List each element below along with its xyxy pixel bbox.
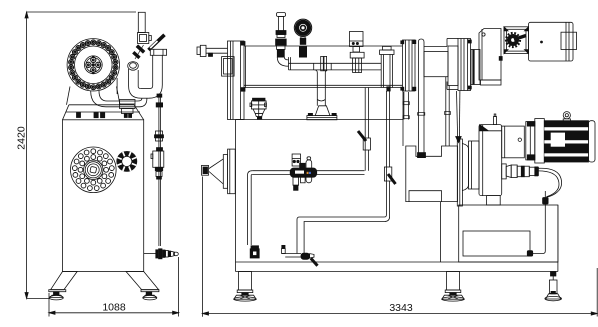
pipe A cap [277, 13, 286, 17]
lower Z pipe [297, 213, 390, 254]
tie rods to bell [456, 91, 462, 143]
pipe B vertical [365, 88, 368, 171]
dimension 1088 extension lines [49, 257, 179, 317]
rod fitting A [156, 94, 162, 107]
top motor cylinder [529, 22, 577, 61]
lower pipe to valve block [106, 99, 147, 107]
pump base box [459, 205, 558, 262]
pipe collar [128, 62, 139, 71]
valve V1 angled lower fittings [133, 45, 145, 59]
bearing flange columns [458, 39, 471, 91]
bell disc [469, 141, 480, 189]
tray inlet valve block [120, 100, 136, 114]
frame leg 2 [445, 272, 461, 293]
bell taper [462, 144, 468, 191]
long mounting bar [418, 39, 425, 153]
camlock coupling [250, 246, 259, 258]
regulator assembly [290, 154, 317, 190]
gear housing with gear [504, 27, 529, 54]
frame outline [236, 91, 558, 272]
pedestal support [307, 70, 337, 120]
frame top line [236, 119, 404, 121]
wheel outlet elbow [91, 91, 107, 107]
dimension 3343 extension lines [203, 177, 598, 317]
tray bolts [77, 113, 132, 118]
hopper [202, 149, 236, 194]
coupling disc [471, 50, 480, 85]
left leg [49, 272, 77, 292]
cabinet top tray [63, 105, 144, 120]
right foot [143, 292, 157, 300]
top wheel support yoke [67, 78, 121, 105]
tank shell [244, 46, 403, 88]
pressure gauge [294, 19, 311, 57]
dimension text 3343 [389, 302, 413, 314]
pipe A elbow to horizontal run [277, 57, 288, 66]
pipe A valve [276, 31, 287, 58]
saddle bracket block [406, 146, 458, 202]
cable to box [527, 204, 545, 256]
coupling shaft [502, 164, 539, 179]
lower disc (mill door disc) [71, 147, 117, 193]
U pipe right leg and flange [149, 55, 162, 98]
U pipe bottom run [141, 89, 150, 99]
frame foot 3 [545, 291, 562, 300]
pipe flange pair [321, 56, 327, 70]
dimension text 1088 [102, 302, 126, 314]
horizontal pipe run [289, 57, 382, 70]
top wheel (grinding disc) [67, 39, 119, 91]
shaft support column [445, 77, 451, 146]
shaft section [424, 39, 458, 90]
svg-text:3343: 3343 [389, 302, 413, 314]
big vertical pipe [380, 46, 394, 87]
dimension 2420 extension line top [27, 11, 136, 13]
tank right flange [401, 40, 416, 91]
vertical pipe top (left view) [138, 12, 145, 32]
main motor [535, 112, 595, 163]
tank left flange [228, 41, 246, 120]
pump body [479, 114, 502, 205]
dimension 1088 line [49, 311, 179, 314]
cable plug [543, 191, 549, 204]
right pipe flange [150, 49, 166, 55]
rod connector B [155, 131, 164, 141]
power cable arc [538, 168, 561, 197]
bottom tap (left view) [144, 249, 179, 259]
inlet port bracket [222, 57, 235, 77]
sight glass body [151, 148, 164, 180]
motor flange plates [526, 122, 535, 160]
dimension 2420 line [25, 12, 28, 299]
right leg [126, 272, 159, 292]
cabinet body (front view) [63, 120, 144, 272]
flange support post [403, 92, 409, 120]
frame foot 1 [234, 293, 256, 302]
hand knob [117, 151, 137, 171]
frame foot 2 [442, 293, 464, 302]
frame leg 3 adjustable [549, 272, 557, 294]
dimension text 2420 [15, 126, 27, 150]
valve V1 lever [149, 35, 165, 50]
gearbox body [479, 29, 502, 86]
bell flange plate [457, 139, 462, 206]
valve V1 body [138, 33, 152, 44]
pipe C valve with lever [384, 167, 395, 184]
svg-text:2420: 2420 [15, 126, 27, 150]
dimension 2420 extension line bottom [27, 298, 49, 300]
left elbow down pipe [247, 171, 252, 245]
U pipe left leg [129, 69, 141, 98]
frame leg 1 [237, 272, 253, 293]
pipe B valve with lever [358, 131, 370, 150]
middle pipe run [252, 171, 364, 175]
pump adapter housing [502, 126, 525, 158]
inlet shaft left [197, 45, 228, 56]
sensor rod (left view) [159, 97, 161, 246]
svg-text:1088: 1088 [102, 302, 126, 314]
dimension 3343 line [203, 312, 598, 315]
drain valve under tank [250, 98, 266, 119]
air filter unit [350, 32, 365, 73]
left foot [49, 292, 63, 300]
bottom tap assembly [282, 245, 318, 265]
pipe A upper tube [278, 17, 283, 32]
pipe C vertical [386, 87, 390, 215]
